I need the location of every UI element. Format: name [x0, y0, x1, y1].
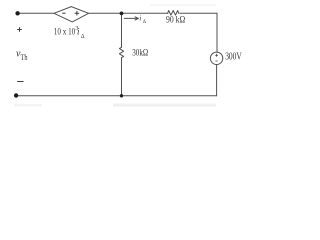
svg-text:30kΩ: 30kΩ [132, 48, 148, 58]
svg-text:Th: Th [21, 53, 28, 62]
svg-text:90 kΩ: 90 kΩ [166, 15, 185, 25]
svg-text:Δ: Δ [81, 34, 85, 40]
svg-text:i: i [77, 27, 80, 37]
svg-text:i: i [139, 14, 141, 23]
svg-text:10 x 10: 10 x 10 [54, 28, 76, 38]
svg-text:300V: 300V [225, 52, 242, 63]
svg-text:Δ: Δ [143, 20, 147, 25]
